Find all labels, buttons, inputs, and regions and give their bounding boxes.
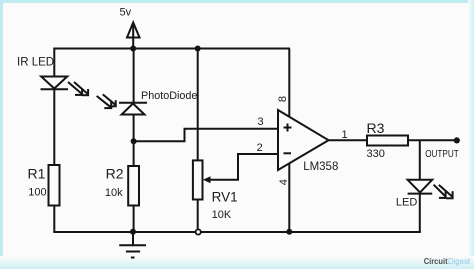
wire bottom rail [53,231,421,233]
wire RV1 wiper to pin2 [203,154,278,183]
LED output [408,180,454,199]
wire R3 to output [408,139,456,141]
svg-text:R3: R3 [367,120,385,136]
svg-text:8: 8 [277,96,289,102]
wire pin1 to R3 [328,139,367,141]
potentiometer RV1 [193,160,203,199]
wire RV1 column upper [197,49,199,161]
junction 5v rail [130,46,136,52]
svg-text:330: 330 [367,148,385,160]
junction RV1 rail [195,46,201,52]
op-amp U1 LM358 [278,110,329,170]
wire pin4 to ground rail [288,163,290,232]
svg-text:10k: 10k [105,187,123,199]
resistor R2 [128,166,139,206]
svg-text:IR LED: IR LED [17,57,54,69]
svg-text:3: 3 [258,116,264,128]
ground [119,232,146,258]
IR LED [41,77,90,96]
svg-text:2: 2 [257,142,263,154]
svg-text:10K: 10K [212,209,232,221]
svg-text:RV1: RV1 [212,189,238,204]
svg-text:100: 100 [28,187,46,199]
wire LED branch [419,140,421,180]
svg-text:PhotoDiode: PhotoDiode [141,90,197,102]
wire photodiode column [133,49,135,233]
junction R2 ground [130,229,136,235]
wire pin8 to rail [288,49,290,118]
wire photodiode junction to pin3 [134,129,278,141]
wire top rail [53,48,290,50]
svg-text:1: 1 [342,129,348,141]
wire LED to bottom rail [419,195,421,233]
svg-text:R2: R2 [106,166,124,182]
svg-text:5v: 5v [120,7,132,19]
power 5v symbol [127,23,140,49]
svg-text:R1: R1 [28,166,46,182]
wire left column [53,49,55,233]
svg-text:4: 4 [278,179,290,185]
logo CircuitDigest [424,257,471,266]
svg-text:LED: LED [396,197,417,209]
node OUTPUT terminal [454,137,460,143]
junction pin4 ground [286,229,292,235]
resistor R3 [367,136,408,146]
resistor R1 [49,165,60,206]
svg-text:Digest: Digest [448,257,471,266]
junction photodiode node [131,138,137,144]
svg-text:Círcuit: Círcuit [424,257,448,266]
photodiode [97,94,147,114]
svg-text:LM358: LM358 [303,161,338,173]
junction RV1 ground (open) [196,229,201,234]
wire RV1 column lower [197,200,199,233]
svg-text:OUTPUT: OUTPUT [425,148,459,160]
